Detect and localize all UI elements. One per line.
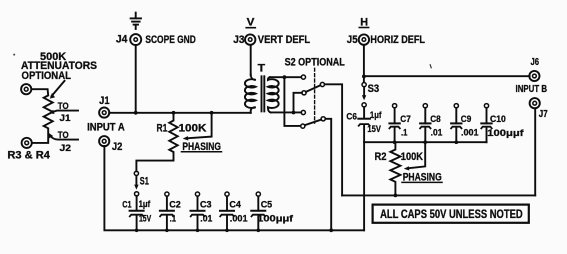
svg-text:C10: C10 [490, 114, 506, 125]
svg-text:R2: R2 [375, 151, 387, 163]
svg-text:S3: S3 [368, 83, 380, 95]
wire J3 down to transformer primary [250, 45, 252, 75]
capacitor C2 .1 [160, 192, 181, 230]
jack J1 INPUT A [87, 95, 125, 134]
capacitor C8 .01 [420, 104, 443, 143]
svg-text:INPUT A: INPUT A [87, 122, 125, 134]
svg-text:J5: J5 [347, 34, 358, 46]
wire to J6 [364, 75, 530, 77]
switch S3 [362, 83, 379, 101]
underline PHASING (R2) [402, 181, 442, 183]
svg-text:J2: J2 [60, 143, 72, 154]
capacitor C3 .01 [191, 192, 213, 230]
capacitor C5 100uuf [251, 192, 294, 230]
svg-text:.001: .001 [230, 213, 248, 224]
underline PHASING (R1) [182, 151, 222, 153]
note box ALL CAPS 50V UNLESS NOTED [373, 205, 529, 223]
label PHASING (R1) [182, 141, 221, 153]
junction dot R1 wiper [210, 111, 214, 115]
ground symbol above J4 [131, 13, 141, 29]
svg-text:15V: 15V [139, 213, 152, 224]
svg-text:C6: C6 [346, 111, 357, 122]
svg-text:TO: TO [58, 101, 69, 112]
wire secondary bottom to S2 row3 contact [271, 111, 301, 113]
capacitor C4 .001 [220, 192, 248, 230]
jack J3 VERT DEFL [233, 34, 310, 46]
svg-text:J3: J3 [233, 34, 244, 46]
wire J4 down to input bus [135, 45, 137, 113]
switch S1 [134, 171, 149, 189]
arrow from OPTIONAL label to attenuator R3/R4 [50, 81, 65, 99]
capacitor C6 1uf 15V [346, 103, 382, 231]
S2 mechanical link (dashed) [314, 68, 316, 123]
tap arrow TO J1 [49, 101, 78, 124]
svg-text:1μf: 1μf [370, 110, 382, 121]
svg-text:C7: C7 [400, 114, 411, 125]
svg-text:15V: 15V [367, 124, 381, 135]
junction dots C1-C5 on ground bus [135, 229, 260, 233]
svg-text:ALL CAPS 50V UNLESS NOTED: ALL CAPS 50V UNLESS NOTED [380, 209, 523, 221]
svg-text:C5: C5 [261, 199, 273, 210]
S2 upper common contact [320, 82, 324, 86]
junction dots on capacitor bus [393, 140, 458, 144]
svg-text:C8: C8 [430, 114, 441, 125]
junction dot secondary top [283, 75, 287, 79]
svg-text:J1: J1 [60, 113, 72, 124]
resistor R2 100K [375, 142, 424, 195]
S2 contact row2 [302, 91, 306, 95]
svg-text:VERT DEFL: VERT DEFL [258, 34, 311, 46]
capacitor C9 .001 [451, 104, 479, 143]
svg-text:SCOPE GND: SCOPE GND [145, 34, 195, 46]
svg-text:HORIZ DEFL: HORIZ DEFL [370, 34, 425, 46]
junction dot lower common/ground bus [329, 228, 333, 232]
svg-text:S1: S1 [140, 176, 149, 188]
svg-text:R1: R1 [157, 123, 168, 135]
svg-text:.01: .01 [431, 127, 443, 138]
svg-text:V: V [247, 16, 255, 28]
svg-text:.1: .1 [401, 127, 408, 138]
R2 wiper arm [404, 142, 425, 170]
svg-text:INPUT B: INPUT B [516, 84, 548, 95]
S2 lower common contact [321, 117, 325, 121]
svg-text:C4: C4 [229, 199, 241, 210]
R1 wiper arm [183, 113, 212, 141]
scan speck [13, 54, 15, 56]
svg-text:100K: 100K [179, 123, 207, 135]
wire J5 down to S3 [363, 45, 365, 82]
svg-text:100K: 100K [401, 151, 423, 163]
S2 contact row4 [301, 124, 305, 128]
junction dot row2/row3 [292, 111, 296, 115]
wire row2 to row3 [294, 93, 302, 113]
capacitor bus C6-C10 [364, 141, 487, 143]
svg-text:H: H [360, 16, 368, 28]
primary winding [245, 75, 256, 113]
S2 upper pole arm [306, 85, 321, 92]
svg-text:.01: .01 [200, 213, 213, 224]
wire crossover (row1 to row4) [284, 77, 300, 126]
jack terminal (attenuator bottom) [22, 138, 32, 148]
resistor R1 100K [136, 113, 206, 172]
label 500K ATTENUATORS OPTIONAL [21, 51, 97, 82]
H symbol above J5 [359, 16, 368, 28]
svg-text:J7: J7 [539, 109, 548, 120]
svg-text:R3 & R4: R3 & R4 [7, 149, 50, 161]
wire J1 to transformer (input bus) [109, 112, 251, 114]
svg-text:J1: J1 [99, 95, 110, 107]
svg-text:S2 OPTIONAL: S2 OPTIONAL [285, 57, 345, 69]
svg-text:OPTIONAL: OPTIONAL [22, 70, 72, 82]
scan tick [430, 65, 431, 68]
svg-text:C3: C3 [200, 199, 212, 210]
svg-text:J4: J4 [116, 33, 128, 45]
S2 contact row1 [301, 75, 305, 79]
wire S2 lower common down to ground bus [325, 119, 331, 231]
jack J6 INPUT B [516, 57, 548, 95]
junction dot J5/J6 wire [362, 75, 366, 79]
capacitor C7 .1 [389, 104, 410, 143]
svg-text:J2: J2 [112, 141, 123, 153]
S2 contact row3 [301, 110, 305, 114]
jack J7 [530, 98, 548, 120]
svg-text:TO: TO [58, 130, 69, 141]
svg-text:100μμf: 100μμf [487, 128, 524, 139]
capacitor C10 100uuf [481, 104, 524, 143]
svg-text:T: T [258, 63, 266, 75]
svg-text:1μf: 1μf [139, 199, 151, 210]
wire S2 upper common down to phasing line [325, 84, 343, 195]
S2 lower pole arm [305, 120, 321, 126]
resistor R3/R4 500K attenuator [32, 89, 53, 143]
core [261, 76, 263, 111]
junction dot J4/bus [134, 111, 138, 115]
phasing output line to J7 [342, 194, 535, 196]
svg-text:.001: .001 [461, 127, 479, 138]
transformer T [245, 63, 279, 113]
jack J2 [99, 136, 122, 153]
jack J5 HORIZ DEFL [347, 34, 425, 46]
junction dot R2 bottom [394, 194, 398, 198]
svg-text:C1: C1 [122, 199, 132, 210]
svg-text:.1: .1 [170, 213, 177, 224]
svg-text:C2: C2 [169, 199, 181, 210]
svg-text:C9: C9 [461, 114, 472, 125]
ground bus wire (J2 down and across bottom) [104, 146, 364, 230]
secondary winding [268, 77, 279, 112]
capacitor C1 1uf 15V [122, 192, 151, 231]
svg-text:J6: J6 [531, 57, 540, 68]
jack J4 SCOPE GND [116, 33, 196, 46]
wire secondary top to S2 row1 contact [270, 76, 301, 78]
tap arrow TO J2 [49, 130, 78, 154]
jack terminal (attenuator top) [21, 84, 31, 94]
V symbol above J3 [246, 16, 255, 28]
svg-text:100μμf: 100μμf [257, 213, 294, 224]
junction dot R1 top [172, 111, 176, 115]
wire J7 down to phasing line [534, 108, 536, 195]
